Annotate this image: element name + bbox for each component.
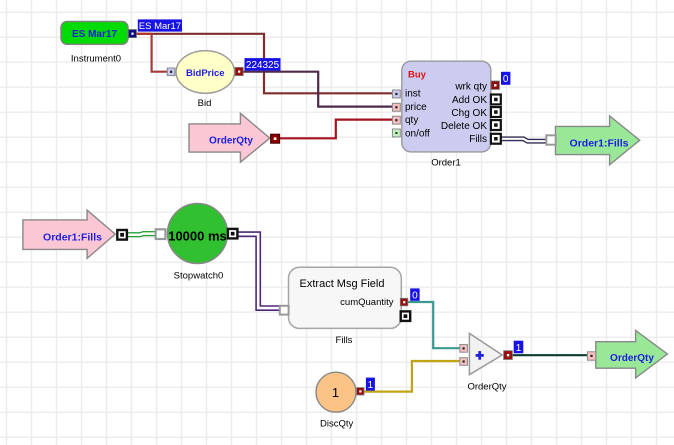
wire OrderQty -> Order1 qty bbox=[280, 120, 393, 139]
port Order1 Fills output bbox=[491, 134, 501, 144]
svg-text:price: price bbox=[405, 102, 427, 113]
value badge 1 (DiscQty) bbox=[366, 378, 375, 391]
port Order1 on/off input bbox=[392, 129, 400, 137]
svg-text:0: 0 bbox=[412, 290, 418, 301]
port adder bottom input bbox=[460, 358, 468, 366]
svg-text:0: 0 bbox=[503, 74, 509, 85]
svg-text:1: 1 bbox=[368, 380, 374, 391]
wire ES Mar17 -> Order1 inst bbox=[136, 34, 392, 94]
wire Stopwatch0 -> Fills extract block (double message line) bbox=[237, 234, 279, 308]
port Order1 qty input bbox=[392, 116, 400, 124]
svg-text:Extract Msg Field: Extract Msg Field bbox=[300, 278, 385, 290]
port Order1 Delete OK output bbox=[491, 120, 501, 130]
svg-text:Bid: Bid bbox=[198, 98, 212, 109]
input arrow OrderQty bbox=[189, 113, 270, 162]
port ES Mar17 output bbox=[128, 30, 136, 38]
port BidPrice output bbox=[235, 67, 243, 75]
wire BidPrice -> Order1 price bbox=[244, 72, 393, 107]
port BidPrice input bbox=[167, 68, 175, 76]
wire segment ES Mar17 port lead bbox=[136, 33, 151, 35]
wire cumQuantity -> adder top input bbox=[407, 302, 460, 348]
value badge 1 (adder) bbox=[514, 341, 524, 354]
svg-text:OrderQty: OrderQty bbox=[467, 382, 506, 393]
adder node OrderQty (+) bbox=[467, 333, 506, 392]
wire ES Mar17 -> BidPrice input bbox=[152, 34, 168, 72]
port Order1 Add OK output bbox=[491, 95, 501, 105]
svg-text:ES Mar17: ES Mar17 bbox=[139, 21, 181, 32]
wire Order1 Fills -> Order1:Fills output (double message line) bbox=[501, 139, 547, 141]
svg-text:wrk qty: wrk qty bbox=[454, 82, 487, 93]
output arrow OrderQty (bottom right) bbox=[596, 330, 668, 378]
port OrderQty arrow output bbox=[271, 134, 280, 143]
svg-text:Buy: Buy bbox=[408, 70, 427, 81]
svg-text:Instrument0: Instrument0 bbox=[71, 54, 121, 65]
svg-text:224325: 224325 bbox=[246, 60, 280, 71]
svg-text:OrderQty: OrderQty bbox=[209, 135, 253, 146]
port Order1 price input bbox=[392, 103, 400, 111]
input arrow Order1:Fills (bottom left) bbox=[23, 210, 115, 258]
svg-text:Delete OK: Delete OK bbox=[441, 121, 487, 132]
value badge 0 (cumQuantity) bbox=[410, 288, 419, 301]
output arrow Order1:Fills bbox=[556, 116, 640, 165]
message block Extract Msg Field (Fills) bbox=[289, 267, 402, 346]
svg-text:ES Mar17: ES Mar17 bbox=[72, 29, 117, 40]
svg-text:OrderQty: OrderQty bbox=[610, 353, 654, 364]
port adder top input bbox=[460, 345, 468, 353]
svg-text:BidPrice: BidPrice bbox=[186, 68, 225, 79]
port Order1:Fills arrow output bbox=[117, 230, 127, 240]
svg-text:Order1:Fills: Order1:Fills bbox=[570, 137, 629, 149]
wire adder -> OrderQty output arrow bbox=[512, 354, 588, 356]
svg-text:Fills: Fills bbox=[469, 134, 487, 145]
value badge ES Mar17 bbox=[138, 19, 182, 32]
port adder output bbox=[504, 351, 513, 360]
svg-text:cumQuantity: cumQuantity bbox=[340, 297, 394, 308]
svg-text:inst: inst bbox=[405, 89, 421, 100]
function node BidPrice (Bid) bbox=[176, 51, 234, 109]
constant node DiscQty bbox=[316, 372, 356, 429]
port Order1 inst input bbox=[392, 90, 400, 98]
port Stopwatch0 input bbox=[156, 229, 166, 239]
port DiscQty output bbox=[357, 388, 364, 395]
svg-text:Fills: Fills bbox=[336, 335, 353, 346]
instrument node ES Mar17 (Instrument0) bbox=[61, 22, 128, 65]
port Order1:Fills arrow input bbox=[546, 135, 555, 144]
svg-text:10000 ms: 10000 ms bbox=[168, 228, 227, 243]
svg-text:1: 1 bbox=[516, 343, 522, 354]
port OrderQty arrow input bbox=[587, 352, 595, 360]
wire Order1:Fills input arrow -> Stopwatch0 (double message line) bbox=[127, 234, 156, 235]
svg-text:on/off: on/off bbox=[405, 129, 430, 140]
port Order1 Chg OK output bbox=[491, 107, 501, 117]
port cumQuantity output bbox=[400, 298, 408, 306]
svg-text:Stopwatch0: Stopwatch0 bbox=[174, 271, 224, 282]
port Fills block message output bbox=[401, 311, 411, 321]
value badge 224325 bbox=[245, 58, 281, 71]
value badge 0 (wrk qty) bbox=[501, 72, 510, 85]
svg-text:Chg OK: Chg OK bbox=[451, 108, 487, 119]
svg-text:1: 1 bbox=[332, 385, 339, 400]
svg-text:qty: qty bbox=[405, 115, 418, 126]
port Stopwatch0 output bbox=[228, 229, 238, 239]
svg-text:Order1: Order1 bbox=[431, 158, 461, 169]
wire DiscQty -> adder bottom input bbox=[364, 361, 460, 392]
port Fills block input bbox=[280, 306, 289, 315]
timer node Stopwatch0 bbox=[168, 204, 228, 282]
port Order1 wrk qty output bbox=[491, 81, 499, 89]
svg-text:Add OK: Add OK bbox=[452, 95, 487, 106]
svg-text:Order1:Fills: Order1:Fills bbox=[43, 232, 102, 244]
svg-text:DiscQty: DiscQty bbox=[320, 419, 354, 430]
order node Order1 bbox=[402, 61, 491, 168]
